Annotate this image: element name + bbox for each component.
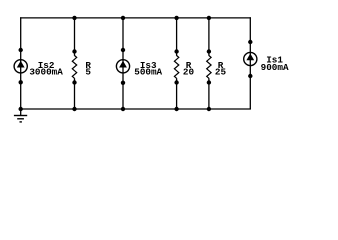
label R5 value xyxy=(85,60,91,78)
node R25 top terminal xyxy=(207,49,211,53)
label R25 value xyxy=(215,60,227,78)
svg-text:20: 20 xyxy=(183,67,195,78)
label R20 value xyxy=(183,60,195,78)
node R20 bottom terminal xyxy=(174,80,178,84)
node Is3 top terminal xyxy=(121,48,125,52)
wire branch R20 lower xyxy=(176,78,178,109)
node R5 bottom terminal xyxy=(72,80,76,84)
svg-text:900mA: 900mA xyxy=(261,62,289,73)
current source Is3 xyxy=(116,60,129,73)
wire branch Is3 xyxy=(122,17,124,109)
current source Is2 xyxy=(14,60,27,73)
node Is2 top terminal xyxy=(19,48,23,52)
ground xyxy=(14,109,27,122)
node R25 top rail junction xyxy=(207,16,211,20)
node ground junction xyxy=(19,107,23,111)
wire branch R25 lower xyxy=(208,78,210,109)
resistor R20 xyxy=(174,56,178,79)
wire bottom rail xyxy=(20,108,251,110)
wire branch Is1 xyxy=(249,17,251,109)
label Is3 value xyxy=(134,60,162,78)
node R5 top terminal xyxy=(72,49,76,53)
wire branch R5 lower xyxy=(74,78,76,109)
node R25 bottom terminal xyxy=(207,80,211,84)
svg-text:25: 25 xyxy=(215,67,227,78)
node Is1 top terminal xyxy=(248,40,252,44)
node Is3 top rail junction xyxy=(121,16,125,20)
node Is3 bottom rail junction xyxy=(121,107,125,111)
wire branch R5 upper xyxy=(74,17,76,56)
node Is1 bottom terminal xyxy=(248,74,252,78)
svg-text:3000mA: 3000mA xyxy=(29,67,63,78)
current source Is1 xyxy=(244,52,257,65)
svg-text:5: 5 xyxy=(85,67,91,78)
label Is2 value xyxy=(29,60,63,78)
wire branch Is2 xyxy=(20,17,22,109)
wire branch R20 upper xyxy=(176,17,178,56)
label Is1 value xyxy=(261,55,289,73)
node R20 top terminal xyxy=(174,49,178,53)
wire branch R25 upper xyxy=(208,17,210,56)
wire top rail xyxy=(20,17,251,19)
resistor R25 xyxy=(207,56,211,79)
node R20 top rail junction xyxy=(174,16,178,20)
resistor R5 xyxy=(72,56,76,79)
svg-text:500mA: 500mA xyxy=(134,67,162,78)
node Is3 bottom terminal xyxy=(121,81,125,85)
node R20 bottom rail junction xyxy=(174,107,178,111)
node R5 top rail junction xyxy=(72,16,76,20)
node R25 bottom rail junction xyxy=(207,107,211,111)
node Is2 bottom terminal xyxy=(19,80,23,84)
node R5 bottom rail junction xyxy=(72,107,76,111)
